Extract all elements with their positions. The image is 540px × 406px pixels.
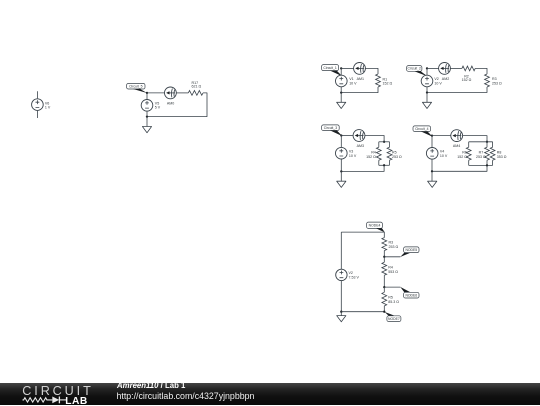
wire node to AM4 [432,135,451,137]
svg-text:10 V: 10 V [349,154,357,158]
svg-text:R3: R3 [389,240,394,244]
svg-text:553 Ω: 553 Ω [388,270,398,274]
wire AM3 to parallel pair [365,136,384,142]
svg-text:152 Ω: 152 Ω [457,155,467,159]
CircuitLab logo wordmark [22,384,93,398]
wire R4 top lead [378,142,380,147]
wire NODE5 to R4 [383,257,385,263]
label V4 value 10 V [440,149,448,157]
svg-text:353 Ω: 353 Ω [497,155,507,159]
label R2 152 ohm [462,74,472,82]
svg-text:R5: R5 [388,296,393,300]
label V2 value 10 V [434,77,442,85]
wire node to AM3 [341,135,353,137]
wire node to AM1 [341,67,353,69]
svg-text:V2: V2 [434,77,438,81]
junction node Circuit_2 top [426,67,428,69]
wire node to V1 plus [340,68,342,75]
label V1 value 10 V [349,77,357,85]
svg-text:152 Ω: 152 Ω [383,82,393,86]
CircuitLab logo schematic line with resistor and diode and LAB [21,394,96,406]
wire R8 top lead [492,142,494,147]
svg-text:5 V: 5 V [155,106,161,110]
wire R5 to bottom rail [383,306,385,312]
node label Circuit_5 [127,83,145,89]
svg-text:NODE4: NODE4 [369,224,381,228]
label V5 value 5 V [155,101,161,109]
ground Circuit_3 [337,181,346,187]
wire R2 to R3 [475,68,487,74]
footer bar [0,383,540,405]
voltage source V2 Circuit_2 [421,75,433,87]
node label NODE6 [404,292,419,298]
wire bottom rail Circuit_4 [469,164,493,166]
ammeter AM3 [353,130,365,142]
node label Circuit_2 [407,66,422,72]
svg-text:AM2: AM2 [442,77,449,81]
svg-text:V1: V1 [349,77,353,81]
junction parallel bottom Circuit_3 [383,164,385,166]
wire node to V2 plus [426,68,428,75]
junction ladder bottom left [340,311,342,313]
wire top rail Circuit_4 [469,141,493,143]
junction node Circuit_1 bottom [340,91,342,93]
ground Circuit_5 [142,127,151,133]
wire R3 to bottom [427,87,487,93]
flag Circuit_2 [414,71,427,76]
junction node Circuit_5 top [146,92,148,94]
wire V4 minus to bottom node [431,159,433,171]
ammeter AM1 [354,63,366,75]
junction parallel bottom Circuit_4 [486,164,488,166]
label R7 253 ohm [476,150,486,158]
ground ladder [337,316,346,322]
resistor R7 [485,147,490,160]
label R4 553 ohm ladder [388,266,398,274]
svg-text:7.53 V: 7.53 V [349,276,360,280]
wire to ground ladder [340,312,342,316]
wire node to AM0 [147,92,165,94]
label V6 value 1 V [45,101,51,109]
junction node Circuit_4 top [431,134,433,136]
wire NODE6 to R5 [383,287,385,292]
junction node Circuit_1 top [340,67,342,69]
svg-text:AM1: AM1 [357,77,364,81]
svg-text:Circuit_3: Circuit_3 [324,126,337,130]
svg-text:V2: V2 [349,271,353,275]
label R3 253 ohm ladder [389,240,399,249]
svg-text:253 Ω: 253 Ω [392,155,402,159]
label R8 353 ohm [497,150,507,158]
wire top rail Circuit_3 [379,141,390,143]
wire R5 top lead [389,142,391,147]
junction node Circuit_3 bottom [340,170,342,172]
resistor R4 [376,147,381,160]
flag Circuit_4 [421,131,433,137]
svg-text:253 Ω: 253 Ω [476,155,486,159]
svg-text:V4: V4 [440,149,444,153]
svg-text:R5: R5 [392,150,397,154]
svg-text:Circuit_2: Circuit_2 [408,67,421,71]
ammeter AM2 [439,63,451,75]
attribution line 1 [117,381,185,390]
wire to ground Circuit_5 [146,117,148,127]
label R5 85.3 ohm ladder [388,296,399,304]
resistor R3 [485,74,490,87]
wire node to V3 plus [340,136,342,148]
flag NODE6 [400,287,410,292]
junction node Circuit_5 bottom [146,115,148,117]
resistor R3 ladder [382,238,387,251]
svg-text:AM0: AM0 [167,102,174,106]
svg-text:1 V: 1 V [45,106,51,110]
wire to ground Circuit_3 [340,171,342,181]
wire AM0 to R17 [176,92,188,94]
attribution line 2 [117,391,255,401]
wire NODE6 stub [384,286,400,288]
wire V6 bottom lead [36,111,38,118]
label V3 value 10 V [349,149,357,157]
voltage source V5 [141,100,153,112]
wire to ground Circuit_2 [426,93,428,103]
junction parallel top Circuit_4 [486,141,488,143]
flag Circuit_3 [330,130,342,136]
svg-text:LAB: LAB [65,396,87,406]
label R4 152 ohm [366,150,376,158]
junction node Circuit_3 top [340,134,342,136]
svg-text:V3: V3 [349,149,353,153]
flag Circuit_5 [133,89,148,93]
junction NODE5 [383,256,385,258]
flag NODE4 [376,228,385,232]
node label NODE4 [367,222,383,228]
resistor R8 [490,147,495,160]
junction parallel top Circuit_3 [383,141,385,143]
wire R8 bottom lead [492,160,494,165]
wire AM1 to R1 [365,68,378,74]
label R5 253 ohm [392,150,402,158]
node label Circuit_3 [322,125,340,131]
wire node to V5 plus [146,93,148,99]
resistor R17 [188,91,203,96]
svg-text:R6: R6 [462,150,467,154]
wire ladder left upper [340,232,342,269]
wire V6 top lead [36,91,38,98]
wire AM4 to parallel trio [463,136,487,142]
svg-text:NODE6: NODE6 [405,293,417,297]
wire R6 top lead [468,142,470,147]
svg-text:253 Ω: 253 Ω [492,81,502,85]
flag NODE7 [385,312,395,316]
svg-text:10 V: 10 V [440,154,448,158]
junction node Circuit_4 bottom [431,170,433,172]
svg-text:R1: R1 [383,77,388,81]
wire V3 minus to bottom node [340,159,342,171]
svg-text:V6: V6 [45,101,49,105]
wire ladder left lower [340,281,342,312]
voltage source V6 [32,99,44,111]
wire R7 top lead [486,142,488,147]
wire R17 right side down to bottom [147,93,207,117]
voltage source V3 [336,147,348,159]
wire V1 minus to bottom node [340,87,342,93]
svg-text:R4: R4 [371,150,376,154]
wire NODE4 top rail [341,232,384,238]
junction node Circuit_2 bottom [426,91,428,93]
ammeter AM4 [451,130,463,142]
svg-text:AM4: AM4 [453,144,460,148]
node label NODE7 [387,316,401,322]
svg-text:10 V: 10 V [434,82,442,86]
wire R4 to NODE6 [383,275,385,287]
wire to ground Circuit_4 [431,171,433,181]
wire V5 minus to bottom node [146,111,148,116]
svg-text:Circuit_5: Circuit_5 [129,84,142,88]
wire ladder bottom rail [341,311,384,313]
svg-text:R7: R7 [479,150,484,154]
resistor R5 ladder [382,292,387,306]
svg-text:Circuit_4: Circuit_4 [415,127,428,131]
svg-text:NODE7: NODE7 [388,317,400,321]
ground Circuit_4 [428,181,437,187]
label R6 152 ohm [457,150,467,158]
label R17 621 ohm [192,81,202,89]
voltage source V2 ladder [336,269,347,280]
svg-text:10 V: 10 V [349,82,357,86]
svg-text:Circuit_1: Circuit_1 [323,66,336,70]
svg-text:NODE5: NODE5 [405,248,417,252]
wire parallel trio to bottom [432,165,487,171]
wire to ground Circuit_1 [340,93,342,103]
resistor R4 ladder [382,262,387,275]
resistor R1 [376,74,381,87]
svg-text:253 Ω: 253 Ω [389,245,399,249]
ground Circuit_1 [337,102,346,108]
voltage source V1 [336,75,348,87]
wire R4 bottom lead [378,160,380,165]
label V2 value 7.53 V [349,271,360,279]
svg-text:152 Ω: 152 Ω [462,78,472,82]
wire V2 minus to bottom node [426,87,428,93]
resistor R6 [466,147,471,160]
wire bottom rail Circuit_3 [379,164,390,166]
wire node to AM2 [427,67,439,69]
svg-text:152 Ω: 152 Ω [366,155,376,159]
wire R7 bottom lead [486,160,488,165]
svg-text:621 Ω: 621 Ω [192,85,202,89]
wire R5 bottom lead [389,160,391,165]
wire NODE5 stub [384,256,400,258]
flag NODE5 [400,253,410,257]
wire R1 to bottom [341,87,378,93]
junction NODE6 [383,286,385,288]
wire AM2 to R2 [450,67,462,69]
node label NODE5 [404,247,419,253]
resistor R5 [387,147,392,160]
ammeter AM0 [165,87,177,99]
wire parallel pair to bottom [341,165,384,171]
wire R6 bottom lead [468,160,470,165]
ground Circuit_2 [422,102,431,108]
node label Circuit_4 [413,126,431,132]
junction NODE7 [383,311,385,313]
svg-text:85.3 Ω: 85.3 Ω [388,300,399,304]
node label Circuit_1 [322,65,339,71]
wire node to V4 plus [431,136,433,148]
flag Circuit_1 [330,71,342,77]
resistor R2 [462,66,475,71]
wire R3 to NODE5 [383,251,385,257]
label R3 253 ohm [492,77,502,85]
svg-text:R4: R4 [388,266,393,270]
label R1 152 ohm [383,77,393,85]
svg-text:V5: V5 [155,101,159,105]
svg-text:AM3: AM3 [357,144,364,148]
svg-text:R8: R8 [497,150,502,154]
voltage source V4 [426,148,438,160]
